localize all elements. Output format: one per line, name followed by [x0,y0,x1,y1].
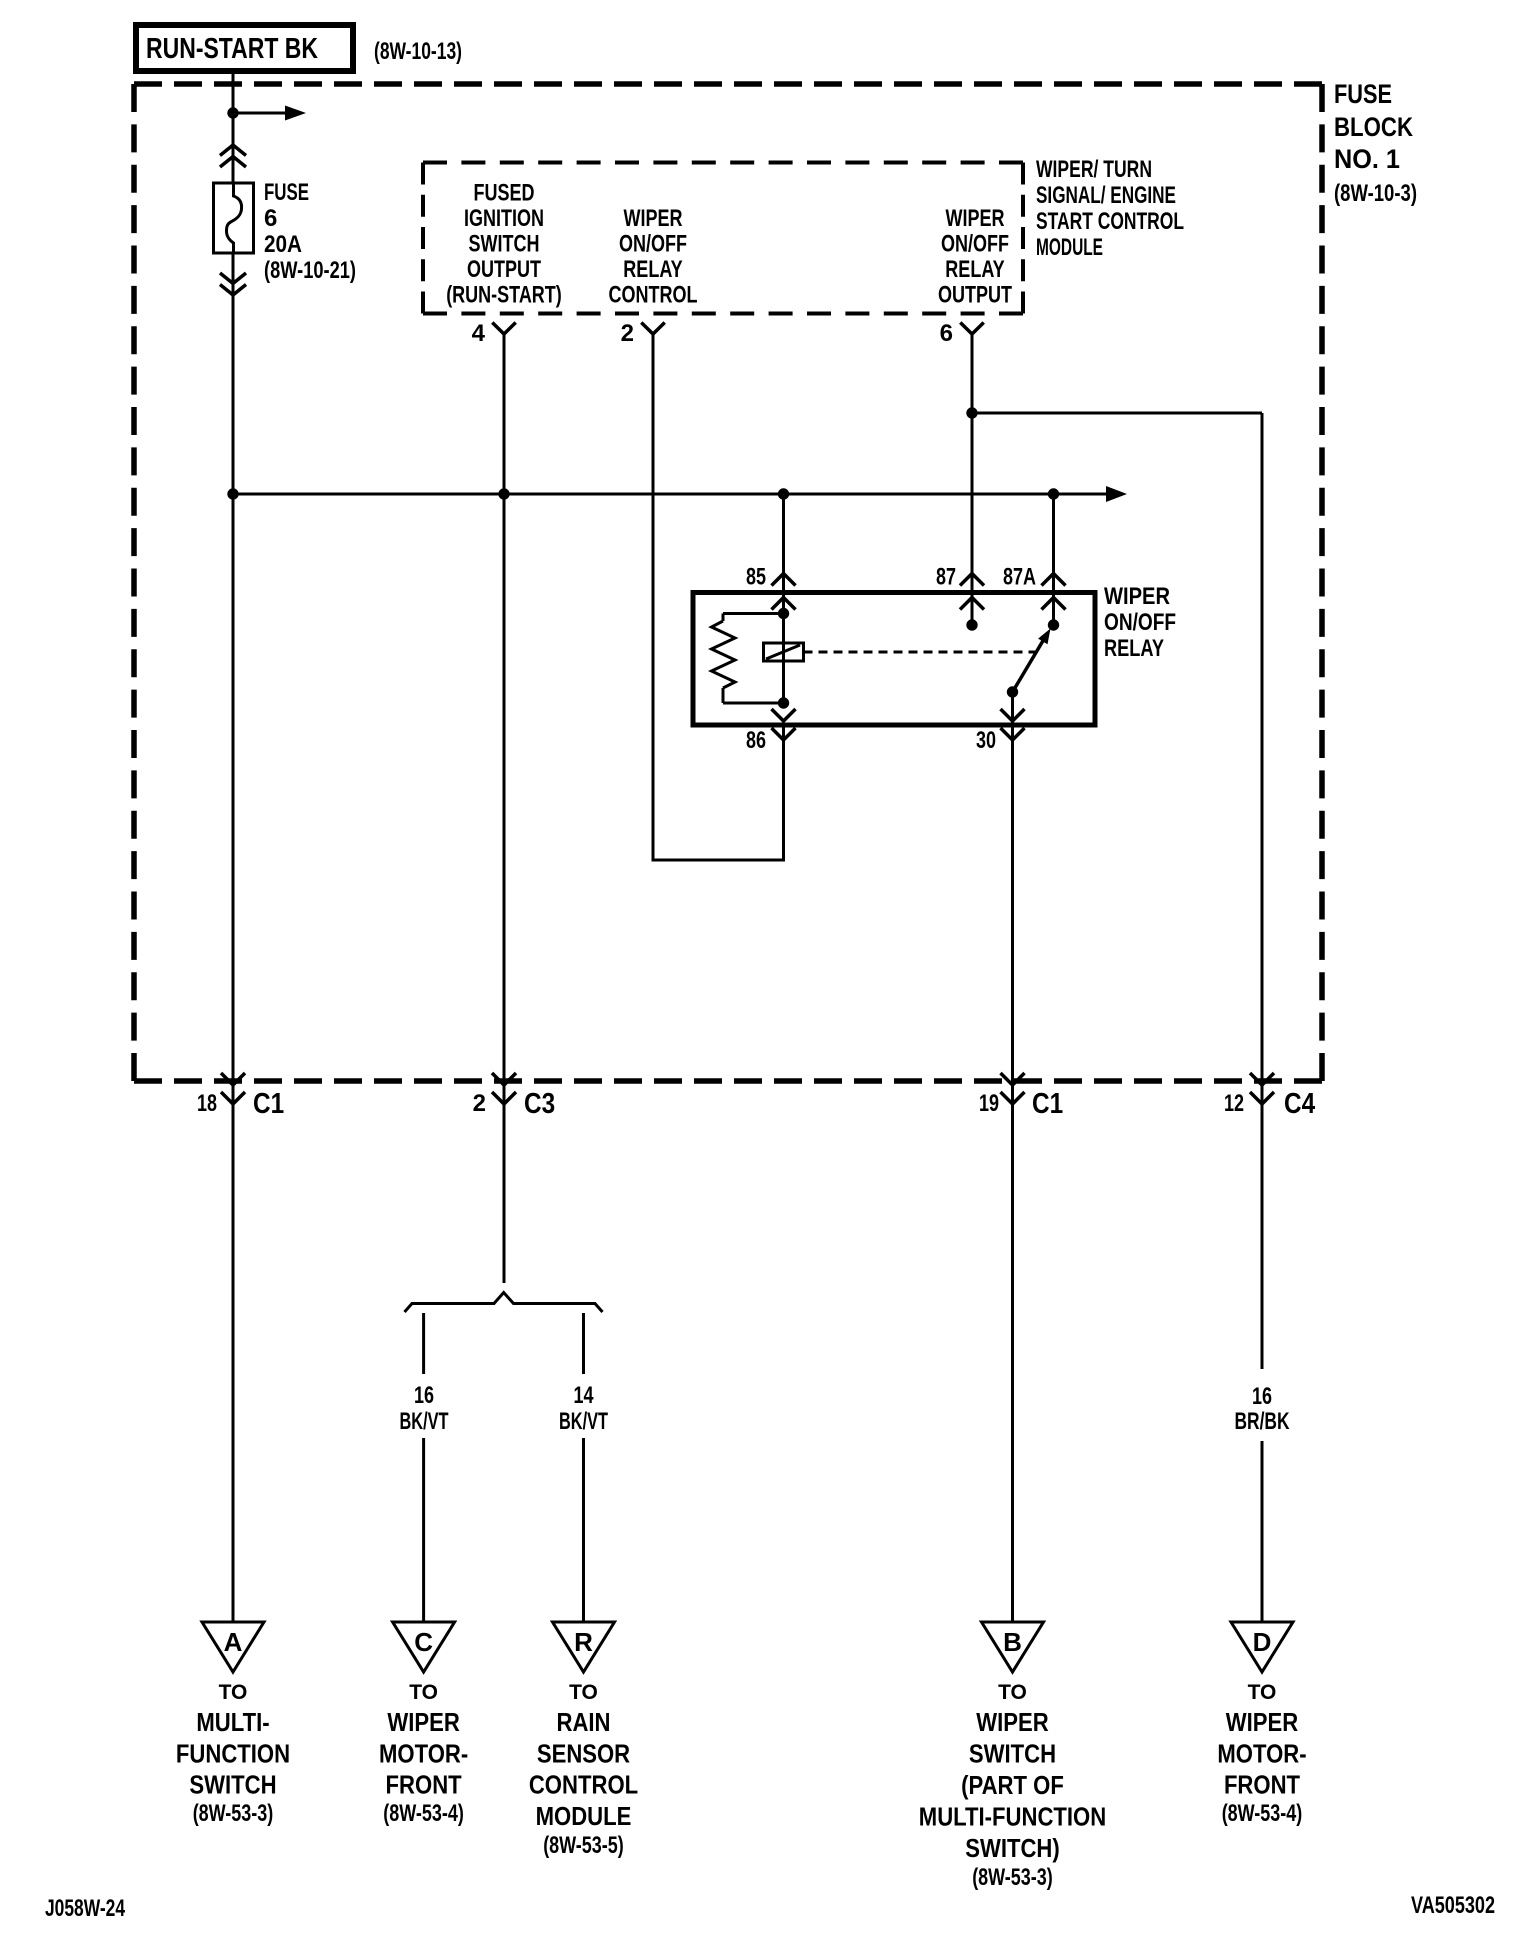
svg-text:TO: TO [569,1681,598,1704]
fuse block no. 1 dashed boundary [134,84,1322,1081]
junction pin 6 branch [966,407,977,418]
svg-text:CONTROL: CONTROL [529,1770,638,1800]
bus wire with arrow [233,486,1127,502]
label FUSE 6 20A (8W-10-21) [264,179,356,284]
resistor coil winding zigzag [712,621,736,688]
label destination wiper motor front (C) [379,1681,468,1827]
wire pin 2 to relay pin 86 [653,334,784,860]
svg-text:WIPER: WIPER [976,1707,1049,1737]
wire run-start into fuse block [232,71,235,183]
off-page triangle D [1231,1622,1293,1672]
wire splice branch 16 BK/VT to triangle C [422,1313,425,1622]
svg-text:SWITCH: SWITCH [469,231,540,258]
junction bus at fuse wire [227,488,238,499]
connector chevrons below fuse 6 [220,273,246,295]
svg-text:WIPER: WIPER [1104,583,1170,610]
svg-text:VA505302: VA505302 [1411,1892,1495,1919]
svg-text:FRONT: FRONT [1224,1770,1300,1800]
label WIPER ON/OFF RELAY [1104,583,1176,662]
svg-text:MULTI-: MULTI- [196,1707,269,1737]
dashed actuator link [804,651,1036,654]
svg-text:RELAY: RELAY [1104,635,1164,662]
svg-text:WIPER: WIPER [946,205,1005,232]
svg-text:TO: TO [409,1681,438,1704]
svg-text:R: R [574,1627,593,1657]
svg-text:(8W-53-4): (8W-53-4) [383,1800,464,1827]
svg-text:85: 85 [746,564,766,591]
junction coil top [778,608,789,619]
svg-text:RUN-START BK: RUN-START BK [146,33,318,65]
svg-text:CONTROL: CONTROL [609,282,698,309]
svg-text:MOTOR-: MOTOR- [1217,1739,1306,1769]
svg-text:MODULE: MODULE [536,1801,632,1831]
svg-text:4: 4 [472,320,486,347]
pin 30 connector chevrons [976,709,1025,754]
svg-text:20A: 20A [264,231,302,258]
svg-text:(8W-10-13): (8W-10-13) [374,38,462,65]
label destination wiper motor front (D) [1217,1681,1306,1827]
svg-text:SIGNAL/ ENGINE: SIGNAL/ ENGINE [1036,182,1176,209]
svg-text:SWITCH: SWITCH [189,1770,276,1800]
junction 87A contact [1048,619,1059,630]
svg-text:D: D [1253,1627,1272,1657]
relay coil branch wires [723,614,784,704]
svg-text:MODULE: MODULE [1036,234,1103,261]
label FUSED IGNITION SWITCH OUTPUT (RUN-START) [446,180,562,309]
label destination wiper switch [919,1681,1106,1891]
off-page triangle A [202,1622,264,1672]
wire pin 4 to C3 pin 2 [503,334,506,1283]
connector C3 pin 2 [473,1073,555,1120]
junction bus at pin 4 wire [498,488,509,499]
svg-text:C4: C4 [1284,1088,1315,1120]
wire bus to relay pin 87A [1052,494,1055,625]
label destination rain sensor control module [529,1681,638,1859]
junction coil bottom [778,697,789,708]
pin 6 connector [940,320,984,347]
svg-text:C: C [414,1627,433,1657]
svg-text:C1: C1 [1032,1088,1063,1120]
wire splice branch 14 BK/VT to triangle R [582,1313,585,1622]
pin 87 connector chevrons [936,564,984,610]
svg-text:BR/BK: BR/BK [1235,1408,1290,1435]
junction bus at relay 87A wire [1048,488,1059,499]
svg-text:RELAY: RELAY [623,256,682,283]
svg-text:FUSED: FUSED [474,180,535,207]
svg-text:14: 14 [574,1382,594,1409]
connector C4 pin 12 [1224,1073,1315,1120]
junction run-start node [227,107,238,118]
svg-text:WIPER: WIPER [1226,1707,1299,1737]
svg-text:NO. 1: NO. 1 [1334,144,1400,174]
svg-text:TO: TO [219,1681,248,1704]
svg-text:(PART OF: (PART OF [961,1770,1064,1800]
svg-text:6: 6 [264,205,277,232]
svg-text:6: 6 [940,320,953,347]
off-page triangle R [553,1622,615,1672]
pin 4 connector [472,320,516,347]
svg-text:RELAY: RELAY [945,256,1004,283]
wiper/turn signal/engine start control module dashed box [423,163,1023,314]
wire bus to relay pin 85 [782,494,785,614]
svg-text:16: 16 [1252,1383,1272,1410]
svg-text:WIPER/ TURN: WIPER/ TURN [1036,156,1152,183]
wire relay pin 30 to C1 pin 19 and triangle B [1011,692,1014,1622]
svg-text:FUSE: FUSE [1334,79,1392,109]
svg-text:IGNITION: IGNITION [464,205,544,232]
label FUSE BLOCK NO. 1 [1334,79,1417,207]
svg-text:C3: C3 [524,1088,555,1120]
svg-text:TO: TO [998,1681,1027,1704]
svg-text:ON/OFF: ON/OFF [1104,609,1176,636]
wire C4 pin 12 to triangle D [1261,1441,1264,1622]
svg-text:12: 12 [1224,1090,1244,1117]
svg-text:ON/OFF: ON/OFF [941,231,1009,258]
label WIPER ON/OFF RELAY CONTROL [609,205,698,309]
label 14 BK/VT [559,1382,608,1435]
fuse 6 20A symbol [214,183,254,253]
junction switch common [1007,686,1018,697]
svg-text:FUSE: FUSE [264,179,309,206]
svg-text:OUTPUT: OUTPUT [938,282,1012,309]
svg-text:87A: 87A [1003,564,1036,591]
wire fuse 6 to pin 18 C1 and triangle A [232,253,235,1622]
off-page triangle B [982,1622,1044,1672]
svg-text:BLOCK: BLOCK [1334,112,1413,142]
svg-text:(8W-53-3): (8W-53-3) [972,1864,1053,1891]
label destination multi-function switch [176,1681,290,1827]
label WIPER/ TURN SIGNAL/ ENGINE START CONTROL MODULE [1036,156,1184,261]
svg-text:OUTPUT: OUTPUT [467,256,541,283]
pin 85 connector chevrons [746,564,796,610]
splice brace under C3 [405,1293,603,1313]
relay switch arm [1013,629,1051,693]
label 16 BR/BK [1235,1383,1290,1435]
svg-text:(RUN-START): (RUN-START) [446,282,562,309]
svg-text:(8W-53-5): (8W-53-5) [543,1832,624,1859]
arrow run-start continuation [233,106,306,121]
junction 87 stub contact [966,619,977,630]
svg-text:FRONT: FRONT [386,1770,462,1800]
svg-text:B: B [1003,1627,1022,1657]
svg-text:SWITCH): SWITCH) [965,1833,1060,1863]
svg-text:SWITCH: SWITCH [969,1739,1056,1769]
relay coil actuator box [764,643,804,661]
svg-text:2: 2 [473,1090,486,1117]
label WIPER ON/OFF RELAY OUTPUT [938,205,1012,309]
wire branch to C4 pin 12 [972,413,1262,1369]
svg-text:(8W-10-3): (8W-10-3) [1334,180,1417,207]
svg-text:16: 16 [414,1382,434,1409]
pin 2 connector [621,320,665,347]
svg-text:BK/VT: BK/VT [559,1408,608,1435]
svg-text:MOTOR-: MOTOR- [379,1739,468,1769]
connector C1 pin 19 [979,1073,1063,1120]
label 16 BK/VT [400,1382,449,1435]
svg-text:START CONTROL: START CONTROL [1036,208,1184,235]
wire pin 6 to relay pin 87 [971,334,974,625]
svg-text:87: 87 [936,564,956,591]
svg-text:WIPER: WIPER [624,205,683,232]
connector C1 pin 18 [197,1073,284,1120]
relay K1 wiper on/off relay box [693,593,1095,726]
svg-text:(8W-53-3): (8W-53-3) [193,1800,274,1827]
svg-text:MULTI-FUNCTION: MULTI-FUNCTION [919,1802,1106,1832]
junction bus at relay 85 wire [778,488,789,499]
svg-text:A: A [224,1627,243,1657]
svg-text:(8W-53-4): (8W-53-4) [1222,1800,1303,1827]
svg-text:2: 2 [621,320,634,347]
svg-text:TO: TO [1248,1681,1277,1704]
connector chevrons above fuse 6 [220,145,246,167]
svg-text:19: 19 [979,1090,999,1117]
svg-text:RAIN: RAIN [557,1707,611,1737]
svg-text:C1: C1 [253,1088,284,1120]
pin 86 connector chevrons [746,709,796,754]
svg-text:WIPER: WIPER [387,1707,460,1737]
svg-text:SENSOR: SENSOR [537,1739,630,1769]
off-page triangle C [393,1622,455,1672]
svg-text:ON/OFF: ON/OFF [619,231,687,258]
svg-text:18: 18 [197,1090,217,1117]
node RUN-START BK feed label box [136,25,353,71]
svg-text:(8W-10-21): (8W-10-21) [264,257,356,284]
svg-text:J058W-24: J058W-24 [45,1895,125,1922]
svg-text:FUNCTION: FUNCTION [176,1739,290,1769]
pin 87A connector chevrons [1003,564,1066,610]
svg-text:BK/VT: BK/VT [400,1408,449,1435]
svg-text:86: 86 [746,727,766,754]
svg-text:30: 30 [976,727,996,754]
